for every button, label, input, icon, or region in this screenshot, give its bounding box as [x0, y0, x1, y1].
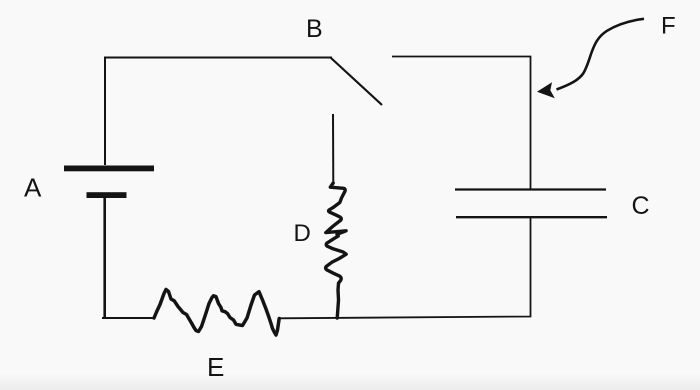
- svg-text:D: D: [294, 220, 311, 247]
- svg-text:F: F: [661, 12, 676, 39]
- svg-text:C: C: [632, 192, 650, 220]
- svg-text:E: E: [207, 352, 224, 382]
- svg-text:B: B: [306, 15, 323, 43]
- svg-text:A: A: [24, 173, 42, 203]
